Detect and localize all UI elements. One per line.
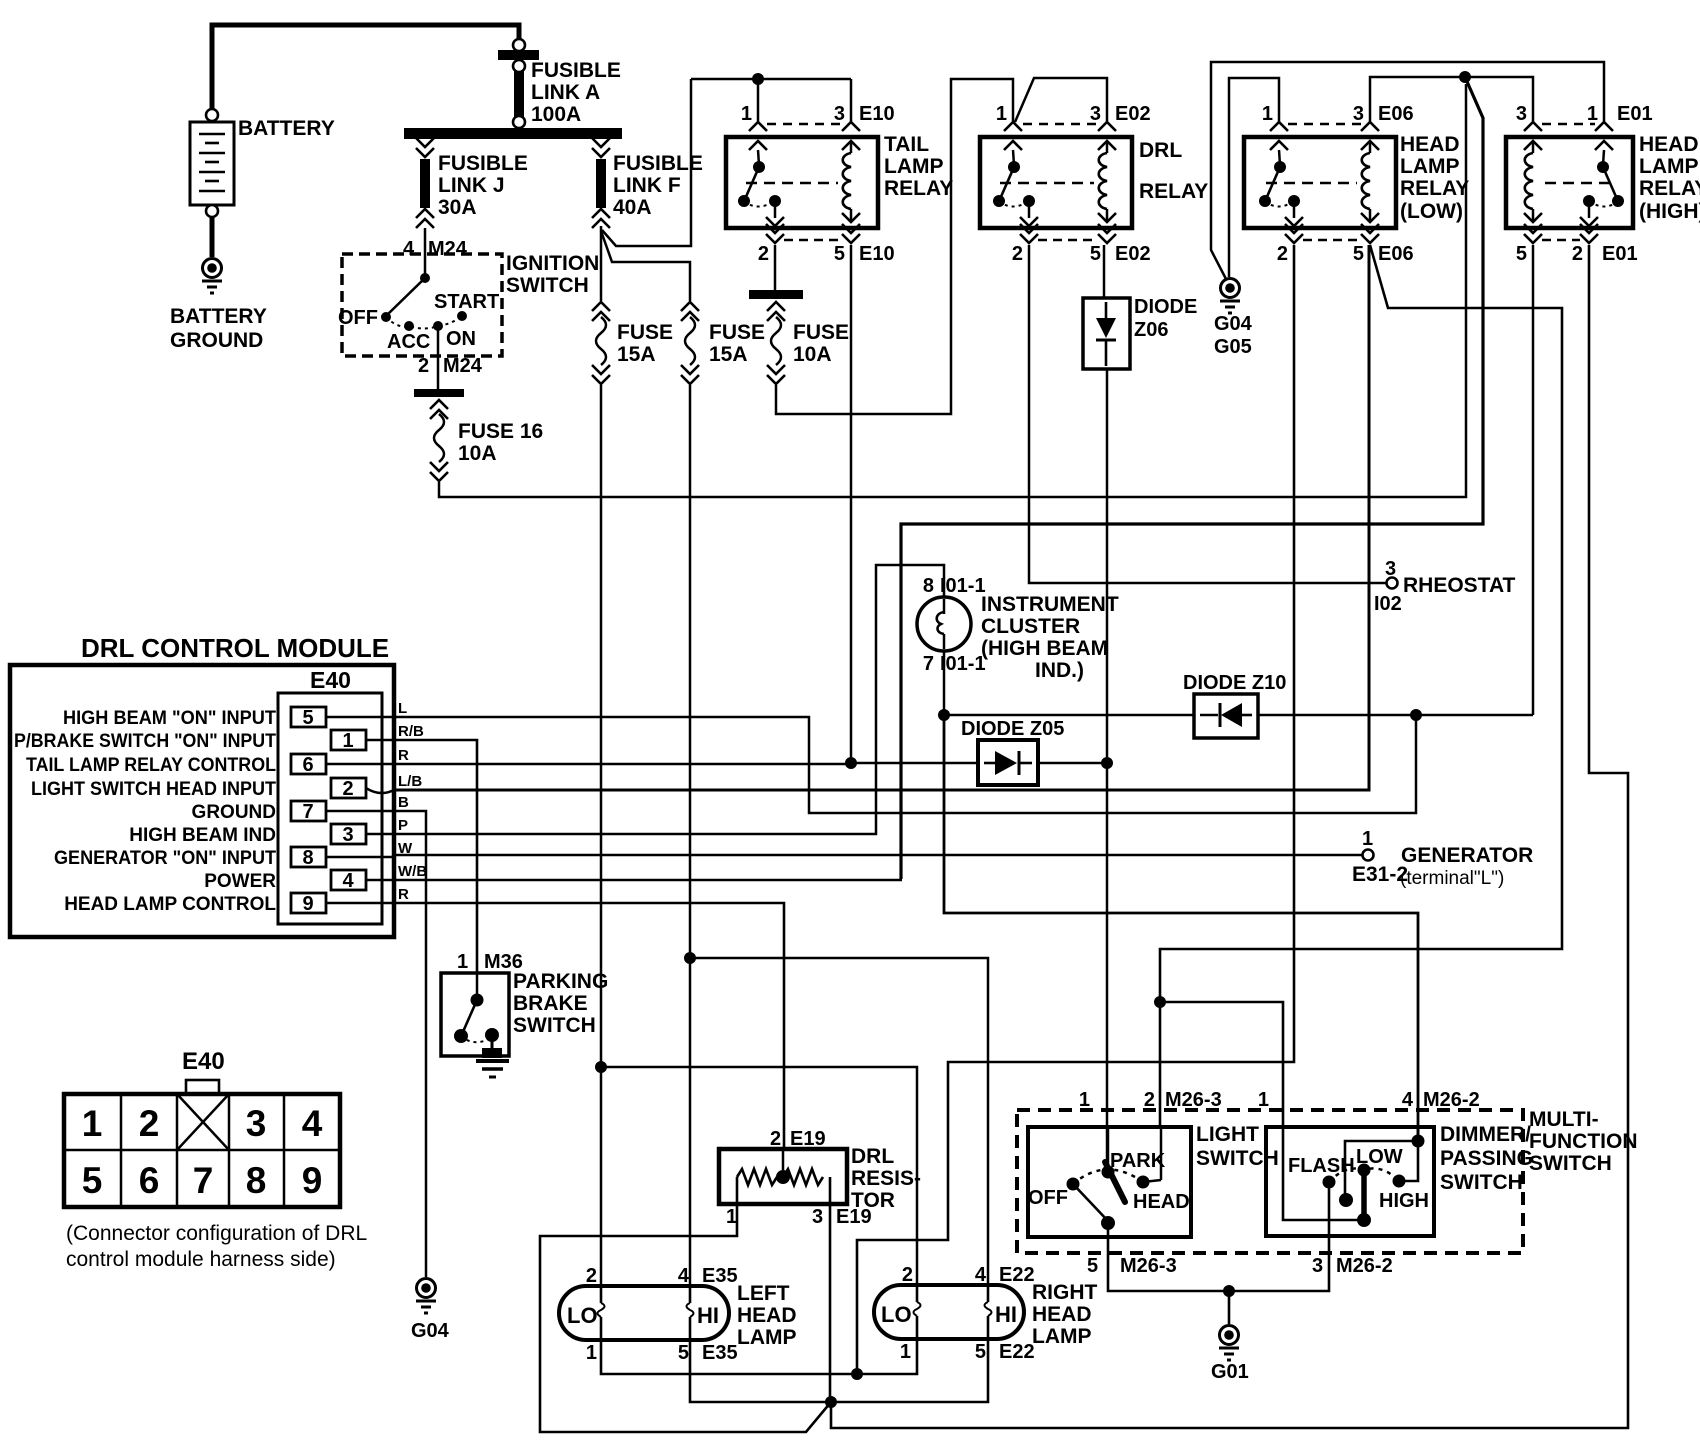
node dot G01: [1223, 1285, 1235, 1297]
head lamp relay high E01: [1506, 103, 1700, 265]
wire fuse 15A no2 to head lamps high: [689, 385, 692, 958]
svg-text:3: 3: [812, 1206, 823, 1228]
svg-text:E01: E01: [1617, 103, 1653, 125]
svg-text:R: R: [398, 886, 409, 903]
svg-text:DIMMER/: DIMMER/: [1440, 1123, 1531, 1146]
wire P high beam ind to cluster: [394, 565, 944, 834]
svg-text:FUSIBLE: FUSIBLE: [613, 152, 703, 175]
svg-text:DIODE Z05: DIODE Z05: [961, 718, 1064, 740]
svg-text:W/B: W/B: [398, 863, 427, 880]
svg-text:LO: LO: [567, 1303, 598, 1328]
DRL resistor E19: [719, 1145, 921, 1228]
svg-text:LIGHT: LIGHT: [1196, 1123, 1259, 1146]
svg-text:E06: E06: [1378, 103, 1414, 125]
svg-text:E35: E35: [702, 1265, 738, 1287]
diode Z10: [1183, 672, 1286, 738]
diode Z06: [1083, 296, 1197, 369]
svg-text:7: 7: [193, 1160, 214, 1201]
svg-text:1: 1: [586, 1342, 597, 1364]
svg-text:2: 2: [139, 1103, 160, 1144]
wire battery negative to ground: [210, 217, 215, 257]
module pin 2: [331, 778, 394, 800]
svg-text:E40: E40: [310, 667, 351, 693]
svg-text:5: 5: [678, 1342, 689, 1364]
node dot high beam branch: [684, 952, 696, 964]
svg-text:(HIGH): (HIGH): [1639, 200, 1700, 223]
svg-text:P/BRAKE SWITCH "ON" INPUT: P/BRAKE SWITCH "ON" INPUT: [14, 731, 276, 752]
svg-text:R/B: R/B: [398, 723, 424, 740]
generator E31-2: [1352, 828, 1533, 889]
svg-text:I01-1: I01-1: [940, 575, 986, 597]
wire B ground to G04: [394, 811, 426, 1277]
wire high beam down to left head lamp pin4: [689, 958, 692, 1286]
module pin 3: [331, 824, 394, 846]
svg-text:INSTRUMENT: INSTRUMENT: [981, 593, 1119, 616]
svg-text:G04: G04: [411, 1320, 450, 1342]
module pin 6: [291, 754, 394, 776]
svg-text:1: 1: [726, 1206, 737, 1228]
wire fusible link F branch to E10 supply rail: [602, 79, 691, 246]
svg-text:DIODE: DIODE: [1134, 296, 1197, 318]
svg-text:ACC: ACC: [387, 331, 430, 353]
svg-text:3: 3: [342, 824, 353, 846]
svg-text:100A: 100A: [531, 103, 581, 126]
svg-text:GROUND: GROUND: [170, 329, 263, 352]
svg-text:LINK J: LINK J: [438, 174, 505, 197]
svg-text:L: L: [398, 700, 407, 717]
svg-text:LEFT: LEFT: [737, 1282, 790, 1305]
wire fuse 15A no1 to head lamps low: [600, 385, 603, 1067]
svg-text:4: 4: [1402, 1089, 1414, 1111]
fuse 16 10A: [414, 389, 543, 481]
svg-text:RELAY: RELAY: [884, 177, 953, 200]
svg-text:M26-2: M26-2: [1423, 1089, 1480, 1111]
svg-text:E22: E22: [999, 1264, 1035, 1286]
svg-text:9: 9: [302, 893, 313, 915]
node dot low beam branch: [595, 1061, 607, 1073]
svg-text:LO: LO: [881, 1302, 912, 1327]
svg-text:3: 3: [1353, 103, 1364, 125]
head lamp relay low E06: [1244, 103, 1469, 265]
wire W generator on input: [394, 854, 1362, 857]
wire E01 pin5 to high beam node: [1532, 245, 1535, 715]
svg-text:LINK A: LINK A: [531, 81, 600, 104]
pin labels 5 M26-3: [1087, 1255, 1177, 1277]
svg-text:2: 2: [342, 778, 353, 800]
svg-text:LAMP: LAMP: [737, 1326, 797, 1349]
DRL control module: [10, 633, 394, 937]
svg-text:HIGH BEAM IND: HIGH BEAM IND: [129, 825, 276, 846]
svg-text:10A: 10A: [458, 442, 497, 465]
wire head lamp pin1 bus: [601, 1339, 917, 1374]
svg-text:LAMP: LAMP: [1639, 155, 1699, 178]
svg-text:1: 1: [1079, 1089, 1090, 1111]
wire node to dimmer pin1: [1160, 1002, 1283, 1127]
module pin 5: [291, 707, 394, 729]
svg-text:2: 2: [758, 243, 769, 265]
E40 connector configuration: [64, 1048, 367, 1271]
svg-text:M26-2: M26-2: [1336, 1255, 1393, 1277]
wire E02 pin2 to rheostat: [1029, 245, 1386, 583]
svg-text:HEAD LAMP CONTROL: HEAD LAMP CONTROL: [64, 894, 276, 915]
svg-text:1: 1: [342, 730, 353, 752]
svg-text:(Connector configuration of DR: (Connector configuration of DRL: [66, 1222, 367, 1245]
wire low beam down to left head lamp pin2: [600, 1067, 603, 1286]
svg-text:PASSING: PASSING: [1440, 1147, 1533, 1170]
svg-text:4: 4: [678, 1265, 690, 1287]
svg-text:3: 3: [1385, 558, 1396, 580]
svg-text:FUSE: FUSE: [709, 321, 765, 344]
svg-text:TAIL: TAIL: [884, 133, 929, 156]
wire fusible link F down to fuse 15A no1: [600, 226, 603, 301]
svg-text:4: 4: [403, 238, 415, 260]
svg-text:2: 2: [586, 1265, 597, 1287]
svg-text:E10: E10: [859, 103, 895, 125]
node dot coil rail: [1459, 71, 1471, 83]
svg-text:LAMP: LAMP: [1400, 155, 1460, 178]
svg-text:RHEOSTAT: RHEOSTAT: [1403, 574, 1516, 597]
svg-text:RELAY: RELAY: [1400, 177, 1469, 200]
svg-text:DRL: DRL: [1139, 139, 1182, 162]
svg-text:R: R: [398, 747, 409, 764]
svg-text:3: 3: [834, 103, 845, 125]
parking brake switch M36: [441, 970, 608, 1077]
E10 supply rail y79: [691, 78, 851, 81]
fusible link A 100A: [498, 39, 621, 128]
svg-text:E02: E02: [1115, 103, 1151, 125]
wire R head lamp control to DRL resistor: [394, 903, 784, 1149]
svg-text:CLUSTER: CLUSTER: [981, 615, 1080, 638]
svg-text:BATTERY: BATTERY: [238, 117, 335, 140]
svg-text:MULTI-: MULTI-: [1529, 1108, 1599, 1131]
tail lamp relay E10: [726, 103, 953, 265]
svg-text:(HIGH BEAM: (HIGH BEAM: [981, 637, 1108, 660]
svg-text:OFF: OFF: [338, 307, 378, 329]
rheostat I02: [1374, 558, 1516, 615]
svg-text:4: 4: [302, 1103, 323, 1144]
wire ignition to fuse 16: [437, 356, 440, 390]
battery ground: [170, 259, 267, 353]
svg-text:FUNCTION: FUNCTION: [1529, 1130, 1638, 1153]
svg-text:1: 1: [1262, 103, 1273, 125]
wire E19 pin3 to high bus dot: [829, 1204, 832, 1402]
svg-text:M24: M24: [443, 355, 483, 377]
svg-text:I01-1: I01-1: [940, 653, 986, 675]
svg-text:2: 2: [1277, 243, 1288, 265]
svg-text:BRAKE: BRAKE: [513, 992, 588, 1015]
svg-text:5: 5: [302, 707, 313, 729]
svg-text:1: 1: [1362, 828, 1373, 850]
ground G04 G05: [1214, 279, 1253, 359]
svg-text:HEAD: HEAD: [1639, 133, 1699, 156]
wire E01 pin1 top feed: [1211, 62, 1604, 279]
svg-text:HEAD: HEAD: [1133, 1191, 1190, 1213]
wire E06 pin1 to ground G04: [1229, 78, 1279, 277]
wire low beam branch to right head lamp pin2: [601, 1067, 917, 1285]
wire diode Z05 to light switch node: [1038, 762, 1107, 765]
wire fusible link F branch to fuse 15A no2: [601, 231, 690, 301]
fuse 10A: [749, 290, 849, 384]
pin 2 E19 label: [770, 1128, 826, 1150]
svg-text:LAMP: LAMP: [1032, 1325, 1092, 1348]
svg-text:FUSIBLE: FUSIBLE: [438, 152, 528, 175]
node dot dimmer feed: [1154, 996, 1166, 1008]
svg-text:P: P: [398, 817, 408, 834]
ignition switch: [338, 252, 599, 356]
svg-text:5: 5: [1090, 243, 1101, 265]
fuse 15A no1: [592, 302, 673, 384]
wire fuse 16 to relay coil rail node: [439, 84, 1466, 497]
svg-text:FUSIBLE: FUSIBLE: [531, 59, 621, 82]
module pin 7: [291, 801, 394, 823]
svg-text:2: 2: [1144, 1089, 1155, 1111]
wire E01 pin2 to high beam bottom bus: [831, 245, 1628, 1428]
svg-text:40A: 40A: [613, 196, 652, 219]
coil rail E06 pin3 to E01 pin3: [1370, 77, 1533, 122]
wire L high beam on input: [394, 715, 1416, 813]
module pin function labels: [14, 708, 276, 915]
DRL relay E02: [980, 103, 1208, 265]
svg-text:E01: E01: [1602, 243, 1638, 265]
left head lamp E35: [559, 1265, 797, 1364]
svg-text:control module harness side): control module harness side): [66, 1248, 336, 1271]
svg-text:OFF: OFF: [1028, 1187, 1068, 1209]
svg-text:POWER: POWER: [204, 871, 276, 892]
right head lamp E22: [874, 1264, 1098, 1363]
svg-text:2: 2: [1012, 243, 1023, 265]
svg-text:E35: E35: [702, 1342, 738, 1364]
svg-text:SWITCH: SWITCH: [1529, 1152, 1612, 1175]
svg-text:DRL CONTROL MODULE: DRL CONTROL MODULE: [81, 633, 389, 663]
svg-text:M26-3: M26-3: [1165, 1089, 1222, 1111]
node dot E10 pin1 rail: [752, 73, 764, 85]
svg-text:RESIS-: RESIS-: [851, 1167, 921, 1190]
wire node to G01 ground: [1228, 1291, 1231, 1324]
wire node diagonal to power feed riser: [901, 77, 1483, 879]
svg-text:3: 3: [246, 1103, 267, 1144]
fuse 15A no2: [681, 302, 765, 384]
svg-text:3: 3: [1312, 1255, 1323, 1277]
svg-text:15A: 15A: [709, 343, 748, 366]
svg-text:PARK: PARK: [1110, 1150, 1166, 1172]
wire E02 pin3 diagonal feed: [1015, 78, 1107, 122]
svg-text:G05: G05: [1214, 336, 1252, 358]
svg-text:30A: 30A: [438, 196, 477, 219]
node dot L wire joins Z10 wire: [1410, 709, 1422, 721]
wire W/B power: [394, 879, 902, 882]
node dot pin1 bus: [851, 1368, 863, 1380]
svg-text:IGNITION: IGNITION: [506, 252, 599, 275]
svg-text:RIGHT: RIGHT: [1032, 1281, 1098, 1304]
wire E19 pin1 loop to high bus: [540, 1204, 831, 1432]
svg-text:RELAY: RELAY: [1639, 177, 1700, 200]
module pin 9: [291, 893, 394, 915]
battery: [190, 109, 335, 217]
svg-text:BATTERY: BATTERY: [170, 305, 267, 328]
svg-text:1: 1: [82, 1103, 103, 1144]
svg-text:GENERATOR "ON" INPUT: GENERATOR "ON" INPUT: [54, 848, 276, 869]
svg-text:LOW: LOW: [1356, 1146, 1403, 1168]
svg-text:5: 5: [82, 1160, 103, 1201]
svg-text:LIGHT SWITCH HEAD INPUT: LIGHT SWITCH HEAD INPUT: [31, 779, 276, 800]
wire Z10 to E01 pin5: [1258, 714, 1533, 717]
svg-text:1: 1: [996, 103, 1007, 125]
svg-text:6: 6: [139, 1160, 160, 1201]
svg-text:SWITCH: SWITCH: [1440, 1171, 1523, 1194]
svg-text:M24: M24: [428, 238, 468, 260]
svg-text:4: 4: [975, 1264, 987, 1286]
module pin 8: [291, 847, 394, 869]
svg-text:1: 1: [457, 951, 468, 973]
pin labels 1 2 M26-3: [1079, 1089, 1222, 1111]
wire battery positive to fusible link A: [212, 25, 519, 110]
wire light switch common and flash to G01: [1108, 1237, 1329, 1291]
svg-text:6: 6: [302, 754, 313, 776]
fusible link F 40A: [592, 138, 703, 228]
svg-text:GROUND: GROUND: [192, 802, 276, 823]
wire fusible link J to ignition switch: [424, 228, 427, 277]
svg-text:9: 9: [302, 1160, 323, 1201]
svg-text:DIODE Z10: DIODE Z10: [1183, 672, 1286, 694]
svg-text:(terminal"L"): (terminal"L"): [1400, 868, 1504, 889]
svg-text:I02: I02: [1374, 593, 1402, 615]
svg-text:15A: 15A: [617, 343, 656, 366]
ground G04 lower: [411, 1279, 450, 1343]
wire rail to E10 pin 3: [850, 79, 853, 122]
pin labels 3 M26-2: [1312, 1255, 1393, 1277]
svg-text:HI: HI: [995, 1302, 1017, 1327]
svg-text:FUSE: FUSE: [793, 321, 849, 344]
wire diode Z06 to R wire node: [1106, 369, 1109, 763]
wire E06 pin2 to headlamp low bus: [857, 245, 1294, 1374]
svg-text:3: 3: [1516, 103, 1527, 125]
svg-text:FUSE 16: FUSE 16: [458, 420, 543, 443]
svg-text:FUSE: FUSE: [617, 321, 673, 344]
svg-text:E06: E06: [1378, 243, 1414, 265]
svg-text:HEAD: HEAD: [1032, 1303, 1092, 1326]
svg-text:FLASH: FLASH: [1288, 1155, 1355, 1177]
pin 2 M24 label: [418, 355, 483, 377]
wire E10 pin2 to fuse 10A: [774, 245, 777, 290]
svg-text:10A: 10A: [793, 343, 832, 366]
svg-text:E10: E10: [859, 243, 895, 265]
svg-text:1: 1: [1587, 103, 1598, 125]
pin 1 M36 label: [457, 951, 523, 973]
wire L/B light switch head input: [394, 245, 1369, 790]
svg-text:L/B: L/B: [398, 773, 422, 790]
svg-text:5: 5: [975, 1341, 986, 1363]
node dot E10 pin5 on R wire: [845, 757, 857, 769]
svg-text:E40: E40: [182, 1048, 225, 1075]
svg-text:M26-3: M26-3: [1120, 1255, 1177, 1277]
pin labels 1 4 M26-2: [1258, 1089, 1480, 1111]
svg-text:TAIL LAMP RELAY CONTROL: TAIL LAMP RELAY CONTROL: [26, 755, 276, 776]
svg-text:5: 5: [1087, 1255, 1098, 1277]
svg-text:1: 1: [900, 1341, 911, 1363]
svg-text:DRL: DRL: [851, 1145, 894, 1168]
wire node to light switch pin1: [1106, 763, 1109, 1172]
wire E02 pin5 to diode Z06: [1103, 245, 1106, 298]
svg-text:1: 1: [741, 103, 752, 125]
svg-text:IND.): IND.): [1035, 659, 1084, 682]
svg-text:8: 8: [246, 1160, 267, 1201]
svg-text:7: 7: [923, 653, 934, 675]
svg-text:HIGH BEAM "ON" INPUT: HIGH BEAM "ON" INPUT: [63, 708, 276, 729]
svg-text:HEAD: HEAD: [1400, 133, 1460, 156]
svg-text:1: 1: [1258, 1089, 1269, 1111]
wire fuse 10A to E02 pin 1: [776, 79, 1013, 414]
svg-text:LINK F: LINK F: [613, 174, 681, 197]
bus bar: [404, 128, 622, 139]
svg-text:5: 5: [1353, 243, 1364, 265]
svg-text:8: 8: [302, 847, 313, 869]
fusible link J 30A: [416, 138, 528, 228]
svg-text:5: 5: [834, 243, 845, 265]
wire Z10 node east: [944, 714, 1194, 717]
wire E10 pin5 to diode Z05 node: [850, 245, 853, 763]
svg-text:SWITCH: SWITCH: [513, 1014, 596, 1037]
svg-text:2: 2: [902, 1264, 913, 1286]
svg-text:GENERATOR: GENERATOR: [1401, 844, 1533, 867]
svg-text:ON: ON: [446, 328, 476, 350]
light switch M26-3: [1028, 1123, 1279, 1237]
instrument cluster high beam indicator: [917, 575, 1119, 682]
svg-text:G01: G01: [1211, 1361, 1249, 1383]
wire head lamp pin5 bus: [690, 1339, 988, 1402]
svg-text:2: 2: [1572, 243, 1583, 265]
svg-text:8: 8: [923, 575, 934, 597]
svg-text:LAMP: LAMP: [884, 155, 944, 178]
wire R tail lamp relay control: [394, 763, 978, 764]
svg-text:RELAY: RELAY: [1139, 180, 1208, 203]
wire colour labels: [398, 700, 427, 903]
wire high beam branch to right head lamp pin4: [690, 958, 988, 1285]
svg-text:HI: HI: [697, 1303, 719, 1328]
svg-text:HEAD: HEAD: [737, 1304, 797, 1327]
svg-text:B: B: [398, 794, 409, 811]
wire cluster node to dimmer pin4: [944, 715, 1418, 1141]
pin 4 M24 label: [403, 238, 468, 260]
dimmer passing switch M26-2: [1266, 1123, 1533, 1237]
svg-text:2: 2: [418, 355, 429, 377]
ground G01: [1211, 1326, 1249, 1384]
wire cluster pin7 down to Z10 node: [943, 651, 946, 715]
svg-text:START: START: [434, 291, 499, 313]
svg-text:(LOW): (LOW): [1400, 200, 1463, 223]
svg-text:E19: E19: [790, 1128, 826, 1150]
node dot pin5 bus: [825, 1396, 837, 1408]
multi-function switch box: [1017, 1108, 1638, 1253]
node dot Z05 output: [1101, 757, 1113, 769]
wire rail to E10 pin 1: [757, 79, 760, 122]
module pin 1: [331, 730, 394, 752]
svg-text:E22: E22: [999, 1341, 1035, 1363]
svg-text:TOR: TOR: [851, 1189, 895, 1212]
svg-text:5: 5: [1516, 243, 1527, 265]
svg-text:2: 2: [770, 1128, 781, 1150]
node dot cluster Z10: [938, 709, 950, 721]
diode Z05: [961, 718, 1064, 785]
svg-text:SWITCH: SWITCH: [506, 274, 589, 297]
svg-text:3: 3: [1090, 103, 1101, 125]
wire R/B to parking brake switch: [394, 740, 477, 973]
svg-text:E02: E02: [1115, 243, 1151, 265]
module pin 4: [331, 870, 394, 892]
svg-text:7: 7: [302, 801, 313, 823]
svg-text:Z06: Z06: [1134, 319, 1168, 341]
svg-text:HIGH: HIGH: [1379, 1190, 1429, 1212]
wire E06 pin5 diagonal to dimmer low feed: [1160, 245, 1562, 1127]
